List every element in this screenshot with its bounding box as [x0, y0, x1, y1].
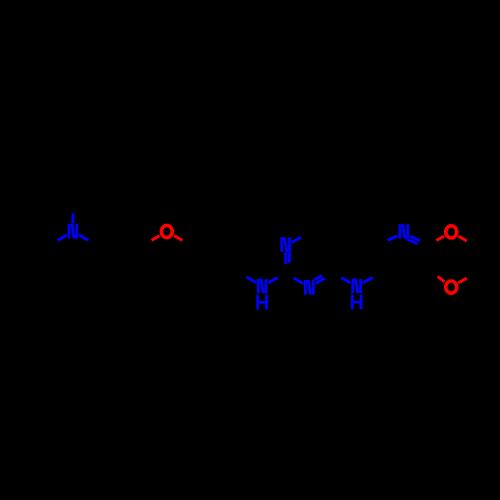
black halo behind label N3 pyrimidine: [303, 280, 316, 295]
black halo behind label H left NH: [256, 295, 269, 310]
bond amine N-CH3 (blue half): [71, 214, 74, 232]
pyrimidine double bond N1=C2 main line (blue half): [284, 246, 287, 264]
black halo behind label O upper methoxy: [443, 223, 460, 241]
bond lower methoxy O-CH3 (red half): [451, 278, 467, 287]
label O upper methoxy: [446, 226, 457, 238]
pyrimidine double bond N3=C4 inner line (blue half): [311, 276, 322, 282]
pyrimidine double bond N3=C4 main line (blue half): [309, 278, 325, 287]
label N left NH: [257, 279, 268, 294]
pyrimidine bond N3-C2 (blue half): [294, 278, 310, 287]
pyridine double bond N1'=C2' inner line (blue half): [406, 238, 418, 243]
bond right NH-C5' pyridine (blue half): [357, 278, 373, 287]
bond upper methoxy O-CH3 (red half): [451, 232, 467, 241]
black halo behind label N pyridine: [398, 224, 411, 239]
label O lower methoxy: [446, 281, 457, 293]
label O ether: [161, 225, 172, 237]
label N pyridine: [399, 224, 410, 239]
label N right NH: [351, 279, 362, 294]
black halo behind label O ether: [159, 223, 176, 241]
pyridine bond N1'-C6' (blue half): [388, 233, 404, 240]
black halo behind label O lower methoxy: [443, 278, 460, 296]
label H left NH: [256, 295, 268, 310]
bond right NH-C4 pyrimidine (blue half): [341, 278, 357, 286]
label H right NH: [351, 295, 363, 310]
black halo behind label H right NH: [350, 294, 363, 309]
bond ether O-CH2 right (red half): [167, 231, 183, 240]
bond left NH-CH2 (blue half): [247, 277, 263, 286]
bond lower methoxy O-C3' (red half): [438, 276, 451, 287]
pyrimidine double bond N1=C2 inner line (blue half): [288, 250, 291, 263]
black halo behind label N amine: [67, 224, 80, 239]
black halo behind label N1 pyrimidine: [279, 237, 292, 252]
black halo behind label N right NH: [350, 278, 363, 293]
bond ether O-CH2 left (red half): [152, 231, 167, 240]
bond amine N-CH2 left (blue half): [57, 231, 73, 240]
label N1 pyrimidine: [280, 237, 291, 252]
label N amine: [68, 224, 79, 239]
bond upper methoxy O-C2' (red half): [436, 232, 451, 241]
label N3 pyrimidine: [304, 280, 315, 295]
black halo behind label N left NH: [256, 278, 269, 293]
pyridine double bond N1'=C2' main line (blue half): [404, 233, 420, 241]
bond left NH-C2 pyrimidine (blue half): [262, 278, 278, 286]
bond amine N-CH2 right (blue half): [73, 231, 88, 240]
pyrimidine bond N1-C6 (blue half): [286, 237, 302, 246]
